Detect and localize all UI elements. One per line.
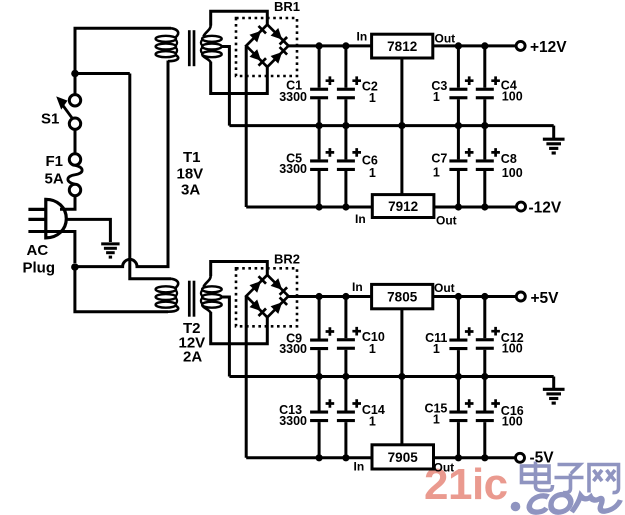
svg-text:+12V: +12V [530,39,567,56]
terminal -5V [516,450,555,467]
terminal +12V [516,39,567,56]
terminal -12V [517,200,562,217]
svg-text:1: 1 [369,415,376,429]
wire -5V rail right segment [434,456,518,459]
terminal +5V [516,290,559,307]
svg-text:S1: S1 [41,111,59,128]
svg-text:3300: 3300 [279,162,307,176]
ground symbol 12V section [543,139,565,153]
switch S1 [56,95,81,130]
wire 0V rail drop to ground (5V section) [552,377,555,390]
svg-text:100: 100 [502,415,523,429]
svg-text:7912: 7912 [388,199,418,214]
label F1 5A [45,153,64,188]
svg-text:BR1: BR1 [274,0,300,14]
ground symbol 5V section [543,389,565,403]
wire BR2 positive output to 7805 In rail [288,295,371,298]
svg-text:F1: F1 [46,153,64,170]
svg-text:1: 1 [369,91,376,105]
wire neutral with hop over T2 hot drop, up to T1 primary bottom [75,61,168,267]
svg-text:1: 1 [369,342,376,356]
wire T2 hot drop down to T2 primary top [130,74,171,279]
wire 7812 output rail [433,44,516,47]
capacitor C1 [279,42,334,129]
label T2 12V 2A [179,320,206,366]
capacitor C15 [424,377,473,462]
svg-text:AC: AC [27,242,49,259]
wire T2 center tap to 0V rail [222,297,230,377]
svg-text:3300: 3300 [279,90,307,104]
wire BR1 positive output to 7812 In rail [288,44,371,47]
svg-text:BR2: BR2 [274,252,300,267]
svg-text:100: 100 [502,166,523,180]
svg-text:2A: 2A [183,349,202,366]
svg-text:18V: 18V [177,166,204,183]
wire AC plug middle prong to safety ground [66,219,110,242]
capacitor C12 [476,293,524,380]
svg-text:+5V: +5V [531,290,560,307]
svg-text:7905: 7905 [388,450,419,465]
svg-text:5A: 5A [45,171,64,188]
watermark character wang [589,465,619,493]
svg-text:In: In [354,460,365,474]
wire hot feed from S1 up and over to T1 primary top [75,28,171,94]
capacitor C3 [431,42,473,129]
svg-text:7812: 7812 [387,39,417,54]
wire T1 center tap to 0V rail [222,47,230,126]
label T1 18V 3A [177,149,204,199]
svg-text:1: 1 [433,166,440,180]
bridge rectifier BR2 dotted outline [236,268,297,326]
watermark character zi [555,465,584,493]
AC plug body [28,199,66,238]
svg-text:C7: C7 [431,152,447,166]
wire J2 down to T2 primary bottom [75,267,168,312]
bridge rectifier BR2 diamond and diodes [246,275,288,317]
wire 7805 output rail [433,295,517,298]
watermark com script [528,495,621,513]
node 7812 ground at 0V rail [398,122,405,129]
bridge rectifier BR1 dotted outline [236,18,297,76]
capacitor C14 [337,377,385,462]
wire T2 secondary top to BR2 top vertex [211,262,268,277]
wire 7805 ground pin to 0V rail and 7905 [400,309,403,445]
wire J1 to T2 hot drop [75,72,130,75]
wire T1 secondary top to BR1 top vertex [211,11,268,25]
label AC Plug [23,242,56,277]
ground symbol at AC plug [101,244,119,257]
bridge rectifier BR1 diamond and diodes [246,25,288,67]
svg-text:100: 100 [502,90,523,104]
svg-text:Out: Out [436,214,457,228]
transformer T1 core [189,30,194,66]
wire T2 secondary bottom to BR2 bottom vertex [211,312,268,344]
svg-text:1: 1 [433,342,440,356]
wire -12V rail left segment [246,206,372,209]
wire 0V rail (5V section) [229,375,553,378]
svg-text:C8: C8 [501,152,517,166]
svg-text:3A: 3A [181,182,200,199]
wire 0V rail (12V section) [229,124,553,127]
wire -5V rail left segment [246,456,372,459]
capacitor C13 [279,377,334,462]
wire 7812 ground pin to 0V rail and 7912 [400,58,403,195]
svg-text:3300: 3300 [279,342,307,356]
capacitor C11 [425,293,473,380]
svg-text:-5V: -5V [530,450,555,467]
svg-text:In: In [352,280,363,294]
regulator U1 7812 [372,34,433,58]
wire BR2 negative output down to -5V rail [245,297,248,458]
svg-text:In: In [357,30,368,44]
wire F1 to AC plug hot prong [60,196,75,210]
capacitor C9 [279,293,334,380]
transformer T1 primary winding [156,28,179,61]
svg-text:In: In [355,212,366,226]
watermark character dian [522,462,553,491]
wire -12V rail right segment [434,206,517,209]
capacitor C7 [431,126,473,211]
capacitor C10 [337,293,385,380]
capacitor C5 [279,126,334,211]
svg-text:Out: Out [434,461,455,475]
transformer T2 primary winding [156,279,179,312]
regulator U4 7905 [372,445,434,469]
wire T1 secondary bottom to BR1 bottom vertex [211,62,268,94]
transformer T2 secondary winding [201,276,222,313]
node neutral junction J2 [71,263,79,271]
capacitor C2 [337,42,378,129]
fuse F1 [68,154,82,196]
transformer T2 core [189,281,194,317]
wire AC plug neutral down to J2 [28,232,75,264]
svg-text:T1: T1 [183,149,201,166]
regulator U2 7912 [372,195,434,218]
wire S1 to F1 [74,129,77,153]
capacitor C4 [476,42,523,129]
svg-text:1: 1 [433,413,440,427]
capacitor C16 [476,377,524,462]
watermark dot of .com [511,502,521,512]
svg-text:1: 1 [433,90,440,104]
wire BR1 negative output down to -12V rail [245,47,248,208]
svg-text:3300: 3300 [279,414,307,428]
regulator U3 7805 [372,284,433,308]
svg-text:100: 100 [502,342,523,356]
capacitor C6 [337,126,378,211]
svg-text:1: 1 [369,166,376,180]
svg-text:Out: Out [434,281,455,295]
svg-text:-12V: -12V [529,200,562,217]
node 7805 ground at 0V rail [398,373,405,380]
svg-text:Out: Out [435,32,456,46]
capacitor C8 [476,126,523,211]
node hot junction J1 [71,70,79,78]
svg-text:Plug: Plug [23,260,56,277]
transformer T1 secondary winding [201,25,222,62]
wire 0V rail drop to ground (12V section) [552,126,555,138]
svg-text:7805: 7805 [387,289,418,304]
